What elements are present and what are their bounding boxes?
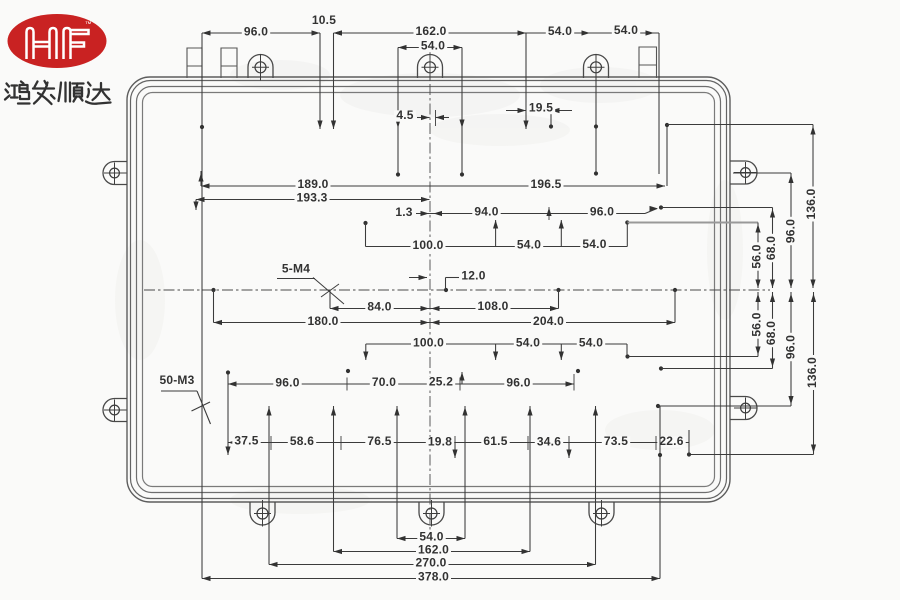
riser x=269 [268,406,270,565]
svg-text:54.0: 54.0 [582,237,606,251]
dim row 96.0 70.0 25.2 96.0 [227,373,229,456]
svg-text:180.0: 180.0 [307,314,338,328]
dim 189.0 and 196.5 line [201,185,665,187]
svg-text:84.0: 84.0 [367,300,391,314]
HF logo letter H [27,28,89,59]
dim 4.5 [417,117,430,119]
riser x=397 [396,406,398,539]
hole dots row y=371 [346,369,350,373]
riser x=660 [659,406,661,579]
HF logo red ellipse [8,14,107,68]
svg-text:196.5: 196.5 [530,177,561,191]
riser x=530 [529,406,531,552]
dim 204.0 [430,322,675,324]
top tab rect 1 [187,48,202,78]
dim row upper 100.0 54.0 54.0 [365,223,367,247]
svg-text:378.0: 378.0 [418,570,449,584]
dim 162.0 top [334,32,527,34]
svg-text:68.0: 68.0 [764,321,778,345]
svg-text:270.0: 270.0 [415,556,446,570]
company name 鸿发顺达 (drawn as paths) [5,82,30,104]
svg-text:4.5: 4.5 [396,108,413,122]
svg-text:76.5: 76.5 [367,434,391,448]
svg-text:96.0: 96.0 [784,335,798,359]
svg-text:189.0: 189.0 [297,177,328,191]
96 lower connector [656,404,660,408]
vertical centerline [429,45,431,535]
svg-text:162.0: 162.0 [415,24,446,38]
dim 193.3 line [196,199,430,201]
136 lower connector [689,454,814,456]
136 upper connector line [667,124,813,126]
5-M4 label and leader [282,264,310,275]
svg-text:58.6: 58.6 [290,434,314,448]
dim 96.0 top-left [202,32,320,34]
56.0 lower dim vertical [757,292,759,357]
top screw boss 3 [584,54,609,78]
svg-text:37.5: 37.5 [234,434,258,448]
193.3 extension arrow down [195,200,197,211]
56 upper connector line [625,220,629,224]
56 lower connector [625,354,629,358]
68 lower connector [659,366,663,370]
dim 10.5 [302,32,320,34]
svg-text:204.0: 204.0 [533,314,564,328]
svg-text:193.3: 193.3 [296,191,327,205]
enclosure outer wall line 2 [131,81,727,499]
dim 54.0 top a [526,32,590,34]
svg-text:94.0: 94.0 [474,205,498,219]
riser x=595.5 [595,406,597,565]
dim row 1.3 94.0 96.0 [416,213,645,215]
svg-text:54.0: 54.0 [579,336,603,350]
extension x=526 [525,33,527,129]
hole dot row1 x=202 [200,125,204,129]
svg-text:162.0: 162.0 [418,543,449,557]
svg-text:10.5: 10.5 [312,13,336,27]
svg-text:100.0: 100.0 [412,238,443,252]
svg-text:12.0: 12.0 [461,269,485,283]
svg-text:54.0: 54.0 [516,336,540,350]
extension x=659 from top 54 dim [658,33,660,174]
svg-text:96.0: 96.0 [275,376,299,390]
svg-text:25.2: 25.2 [429,375,453,389]
50-M3 label and leader [160,375,195,386]
svg-text:73.5: 73.5 [604,434,628,448]
dim 54.0 top b [590,32,659,34]
svg-text:56.0: 56.0 [750,244,764,268]
svg-text:1.3: 1.3 [395,205,412,219]
enclosure inner wall line 3 [137,87,721,493]
svg-text:34.6: 34.6 [537,435,561,449]
96.0 lower dim vertical [790,292,792,406]
top screw boss 1 [248,54,273,78]
enclosure inner wall line 4 [143,93,715,487]
68.0 lower dim vertical [772,292,774,369]
bottom screw boss 1 [250,502,275,525]
left mounting ear upper [103,162,127,185]
dim 84.0 [329,290,331,309]
svg-text:136.0: 136.0 [804,188,818,219]
svg-text:108.0: 108.0 [477,299,508,313]
left mounting ear lower [103,399,127,422]
dim 108.0 [430,308,559,310]
riser x=667 to 136 row [666,125,668,186]
extension x=320 (10.5 left) [319,33,321,129]
right mounting ear lower [730,397,757,420]
riser x=689 [688,430,690,455]
hole dot (365.5,223) [363,221,367,225]
136.0 lower dim vertical [813,292,815,455]
extension x=462 (54 right) [461,48,463,175]
svg-text:96.0: 96.0 [244,25,268,39]
svg-text:56.0: 56.0 [750,312,764,336]
svg-text:54.0: 54.0 [517,238,541,252]
top screw boss 2 (center) [418,54,443,78]
bottom screw boss 3 [589,502,614,525]
svg-text:70.0: 70.0 [372,375,396,389]
top tab rect 2 [221,48,237,78]
dim row 37.5 58.6 76.5 19.8 61.5 34.6 73.5 22.6 [228,442,689,444]
dim 54.0 boss row [398,47,462,49]
svg-text:54.0: 54.0 [421,39,445,53]
horizontal centerline [144,289,770,291]
svg-text:96.0: 96.0 [506,376,530,390]
svg-text:19.5: 19.5 [529,101,553,115]
long extension line x=202 [201,33,203,579]
svg-text:5-M4: 5-M4 [282,262,310,276]
boss3 hole axis x=596 [595,70,597,174]
svg-text:54.0: 54.0 [419,530,443,544]
136.0 upper dim vertical [812,125,814,289]
dim 12.0 [409,277,427,279]
top tab rect 3 (right) [639,47,657,78]
dim 270.0 bottom [269,564,596,566]
svg-text:68.0: 68.0 [764,236,778,260]
56.0 upper dim vertical [757,223,759,289]
dim 378.0 bottom [202,578,660,580]
189 extension arrow up [200,171,202,186]
riser x=465 [464,406,466,539]
svg-text:136.0: 136.0 [805,357,819,388]
svg-text:19.8: 19.8 [428,435,452,449]
dim 180.0 [213,290,215,323]
dim row lower 100.0 54.0 54.0 [365,344,367,360]
svg-text:54.0: 54.0 [614,23,638,37]
dim 162.0 bottom [334,551,531,553]
extension x=398 (54 left) [397,48,399,175]
68.0 upper dim vertical [772,208,774,289]
riser with up arrow x=462 [461,372,463,384]
HF logo letter F [64,28,71,59]
svg-text:™: ™ [85,21,92,28]
svg-text:61.5: 61.5 [483,434,507,448]
svg-text:22.6: 22.6 [659,434,683,448]
riser x=333.5 [333,406,335,552]
dim 54.0 bottom [397,538,465,540]
dim 19.5 [506,110,526,112]
svg-text:96.0: 96.0 [784,219,798,243]
svg-text:54.0: 54.0 [548,24,572,38]
svg-text:100.0: 100.0 [413,336,444,350]
right mounting ear upper [730,161,757,184]
enclosure outer wall line 1 [127,77,730,502]
svg-text:50-M3: 50-M3 [159,373,194,387]
extension x=551 to hole dot [550,112,552,127]
extension x=333.5 (10.5 right) [333,33,335,129]
68 upper connector line [659,205,663,209]
96.0 upper dim vertical [790,173,792,288]
centerline hole dots [211,288,215,292]
bottom screw boss 2 (center) [419,502,444,525]
96 upper connector line [733,172,791,174]
faint scan mottling [115,60,743,514]
svg-text:96.0: 96.0 [590,205,614,219]
